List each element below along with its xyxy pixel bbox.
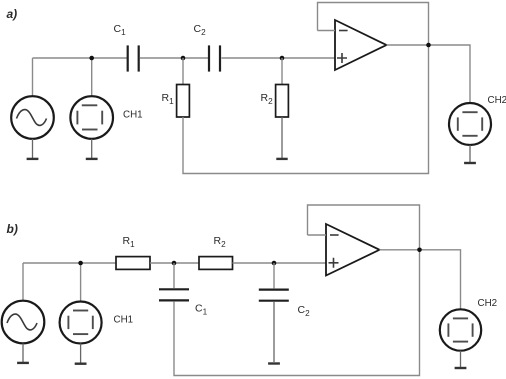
svg-text:R1: R1 — [162, 92, 175, 106]
wire R2 top stub (a) — [281, 58, 283, 85]
wire C1 bottom feedback to output node (b) — [174, 250, 420, 376]
svg-text:C1: C1 — [114, 23, 127, 37]
sine generator source (a) — [11, 96, 54, 139]
ground CH2 (b) — [455, 367, 467, 369]
svg-text:a): a) — [7, 7, 18, 21]
svg-text:C1: C1 — [195, 303, 208, 317]
label a) — [7, 7, 18, 21]
ground CH2 (a) — [464, 162, 476, 164]
svg-text:C2: C2 — [194, 23, 207, 37]
wire generator bottom (a) — [32, 139, 34, 158]
label R1 (a) — [162, 92, 175, 106]
label CH2 (b) — [478, 298, 498, 309]
capacitor C1 — [128, 45, 139, 71]
svg-text:CH2: CH2 — [488, 95, 506, 106]
junction node B (b) — [272, 261, 277, 266]
wire C1 top stub (b) — [173, 263, 175, 288]
ground CH1 (b) — [75, 363, 87, 365]
wire feedback loop (a) — [318, 3, 429, 46]
wire generator top stub (b) — [22, 263, 24, 301]
label C1 (b) — [195, 303, 208, 317]
oscilloscope CH1 (b) — [60, 302, 102, 344]
ground C2 (b) — [268, 362, 280, 364]
wire CH1 top stub (b) — [80, 263, 82, 302]
wire C2 to op-amp plus input (a) — [221, 57, 335, 59]
svg-text:C2: C2 — [298, 304, 311, 318]
label CH1 (b) — [114, 315, 134, 326]
wire C1 to C2 (a) — [140, 57, 209, 59]
oscilloscope CH1 (a) — [70, 96, 113, 139]
junction node A (b) — [172, 261, 177, 266]
wire CH2 bottom (b) — [460, 351, 462, 368]
label CH2 (a) — [488, 95, 506, 106]
wire inverting input stub (b) — [308, 234, 327, 236]
wire CH1 top stub (a) — [91, 58, 93, 97]
wire R1 to R2 (b) — [150, 262, 199, 264]
wire CH2 bottom (a) — [469, 145, 471, 162]
svg-text:CH1: CH1 — [123, 110, 143, 121]
wire R2 to op-amp plus input (b) — [233, 262, 327, 264]
capacitor C1 (b) — [159, 289, 189, 300]
resistor R2 (a) — [276, 85, 289, 118]
wire input net: generator to C1 (a) — [33, 57, 128, 59]
junction CH1 tap (b) — [78, 261, 83, 266]
wire output to CH2 (b) — [380, 250, 461, 310]
junction output node (a) — [426, 43, 431, 48]
svg-text:CH2: CH2 — [478, 298, 498, 309]
op-amp U2 (b) — [326, 224, 380, 276]
label R2 (a) — [261, 92, 274, 106]
wire generator top stub (a) — [32, 58, 34, 97]
wire C2 top stub (b) — [273, 263, 275, 288]
op-amp U1 (a) — [335, 20, 387, 70]
svg-text:R2: R2 — [214, 235, 227, 249]
ground generator (a) — [27, 158, 39, 160]
wire generator bottom (b) — [22, 344, 24, 363]
resistor R1 (b) — [116, 257, 150, 270]
ground R2 (a) — [276, 158, 287, 160]
wire R2 to ground (a) — [281, 117, 283, 158]
sine generator source (b) — [2, 301, 45, 344]
wire R1 top stub (a) — [182, 58, 184, 85]
junction node A (a) — [181, 56, 186, 61]
junction output node (b) — [417, 248, 422, 253]
resistor R1 (a) — [177, 85, 190, 118]
capacitor C2 (b) — [259, 290, 289, 301]
label C2 — [194, 23, 207, 37]
label b) — [7, 222, 18, 236]
svg-text:R1: R1 — [123, 235, 136, 249]
wire feedback loop (b) — [308, 205, 420, 250]
svg-text:CH1: CH1 — [114, 315, 134, 326]
ground generator (b) — [17, 362, 29, 364]
label R1 (b) — [123, 235, 136, 249]
wire input net: generator to R1 (b) — [23, 262, 116, 264]
resistor R2 (b) — [199, 257, 233, 270]
label CH1 (a) — [123, 110, 143, 121]
svg-text:b): b) — [7, 222, 18, 236]
oscilloscope CH2 (a) — [449, 103, 491, 145]
label C2 (b) — [298, 304, 311, 318]
label R2 (b) — [214, 235, 227, 249]
ground CH1 (a) — [86, 158, 98, 160]
wire output to CH2 (a) — [387, 45, 471, 103]
wire CH1 bottom (a) — [91, 139, 93, 158]
capacitor C2 — [209, 45, 220, 71]
wire R1 bottom feedback to output node (a) — [183, 45, 429, 174]
wire inverting input stub (a) — [318, 30, 336, 32]
svg-text:R2: R2 — [261, 92, 274, 106]
label C1 — [114, 23, 127, 37]
junction node B (a) — [280, 56, 285, 61]
wire CH1 bottom (b) — [80, 344, 82, 363]
junction CH1 tap (a) — [89, 56, 94, 61]
oscilloscope CH2 (b) — [440, 309, 481, 350]
wire C2 to ground (b) — [273, 302, 275, 362]
